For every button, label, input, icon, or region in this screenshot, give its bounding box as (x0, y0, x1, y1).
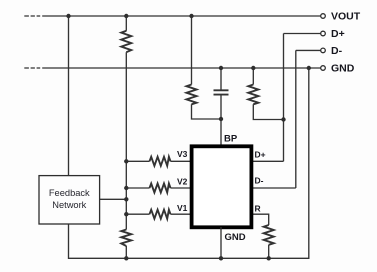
wire VOUT-to-BP branch upper lead (191, 16, 193, 85)
junction bottom rail at R-set (267, 256, 271, 260)
terminal VOUT (321, 14, 326, 19)
wire IC GND pin lead (220, 227, 222, 258)
wire feedback network output (100, 198, 127, 200)
wire VOUT rail dashed left stub (24, 15, 40, 17)
wire R pin lead (250, 214, 269, 225)
junction column V2 (124, 186, 128, 190)
wire D+ pin lead (250, 160, 284, 162)
junction top rail at feedback branch (66, 14, 70, 18)
wire D- pin lead (250, 187, 296, 189)
resistor R-left of BP filter (187, 85, 197, 105)
resistor R-bottom on divider column (121, 230, 131, 247)
svg-text:GND: GND (225, 232, 246, 243)
wire divider column lower lead (125, 246, 127, 258)
junction bottom rail at IC GND (219, 256, 223, 260)
svg-text:BP: BP (224, 134, 238, 145)
wire divider column upper lead (125, 16, 127, 31)
junction BP node (219, 117, 223, 121)
wire feedback input vertical (68, 16, 70, 176)
junction top rail at divider column (124, 14, 128, 18)
wire V1 row right lead (171, 213, 193, 215)
resistor R-V3 (150, 157, 171, 166)
junction column feedback tap (124, 197, 128, 201)
wire D+ terminal lead (284, 33, 322, 35)
junction GND rail at GND net vertical (307, 66, 311, 70)
wire V1 row left lead (126, 213, 149, 215)
terminal GND (321, 66, 326, 71)
svg-text:Network: Network (52, 200, 86, 210)
wire feedback output vertical and bottom rail (69, 68, 309, 258)
svg-text:D+: D+ (331, 28, 345, 40)
capacitor C1 bottom lead to BP pin (220, 95, 222, 145)
wire R-set lower lead (268, 245, 270, 258)
wire D+ net vertical (283, 34, 285, 162)
terminal D+ (321, 31, 326, 36)
Feedback Network box (39, 176, 100, 224)
IC U1 body (192, 146, 252, 227)
svg-text:V1: V1 (177, 203, 188, 213)
wire V2 row right lead (171, 187, 193, 189)
wire GND rail dashed left stub (24, 67, 40, 69)
junction column V3 (124, 159, 128, 163)
svg-text:V3: V3 (177, 149, 188, 159)
capacitor C1 plates (214, 90, 229, 94)
svg-text:R: R (255, 204, 261, 214)
wire VOUT top rail (42, 15, 321, 17)
junction GND rail at right resistor (251, 66, 255, 70)
junction D+ vertical at filter (281, 117, 285, 121)
wire GND rail (42, 67, 321, 69)
svg-text:GND: GND (331, 63, 355, 75)
svg-text:D+: D+ (255, 150, 266, 160)
wire left-resistor bottom to BP node (192, 104, 222, 119)
wire V3 row left lead (126, 160, 149, 162)
terminal D- (321, 48, 326, 53)
junction top rail at BP branch (189, 14, 193, 18)
resistor R-set on R pin (264, 225, 274, 245)
wire V2 row left lead (126, 187, 149, 189)
junction GND rail at capacitor (219, 66, 223, 70)
svg-text:VOUT: VOUT (331, 11, 361, 23)
wire right-resistor bottom to D+ vertical (253, 104, 283, 119)
wire divider column middle (125, 52, 127, 229)
junction bottom rail at column (124, 256, 128, 260)
resistor R-V1 (150, 210, 171, 219)
resistor R-right top lead (252, 68, 254, 85)
resistor R-right of BP filter (248, 85, 258, 105)
svg-text:Feedback: Feedback (49, 188, 90, 198)
wire D- net vertical (295, 50, 297, 188)
junction column V1 (124, 212, 128, 216)
resistor R-top on divider column (121, 31, 131, 52)
resistor R-V2 (150, 184, 171, 193)
svg-text:D-: D- (331, 45, 343, 57)
svg-text:V2: V2 (177, 177, 188, 187)
capacitor C1 top lead (220, 68, 222, 90)
svg-text:D-: D- (255, 176, 264, 186)
wire V3 row right lead (171, 160, 193, 162)
wire D- terminal lead (296, 49, 321, 51)
